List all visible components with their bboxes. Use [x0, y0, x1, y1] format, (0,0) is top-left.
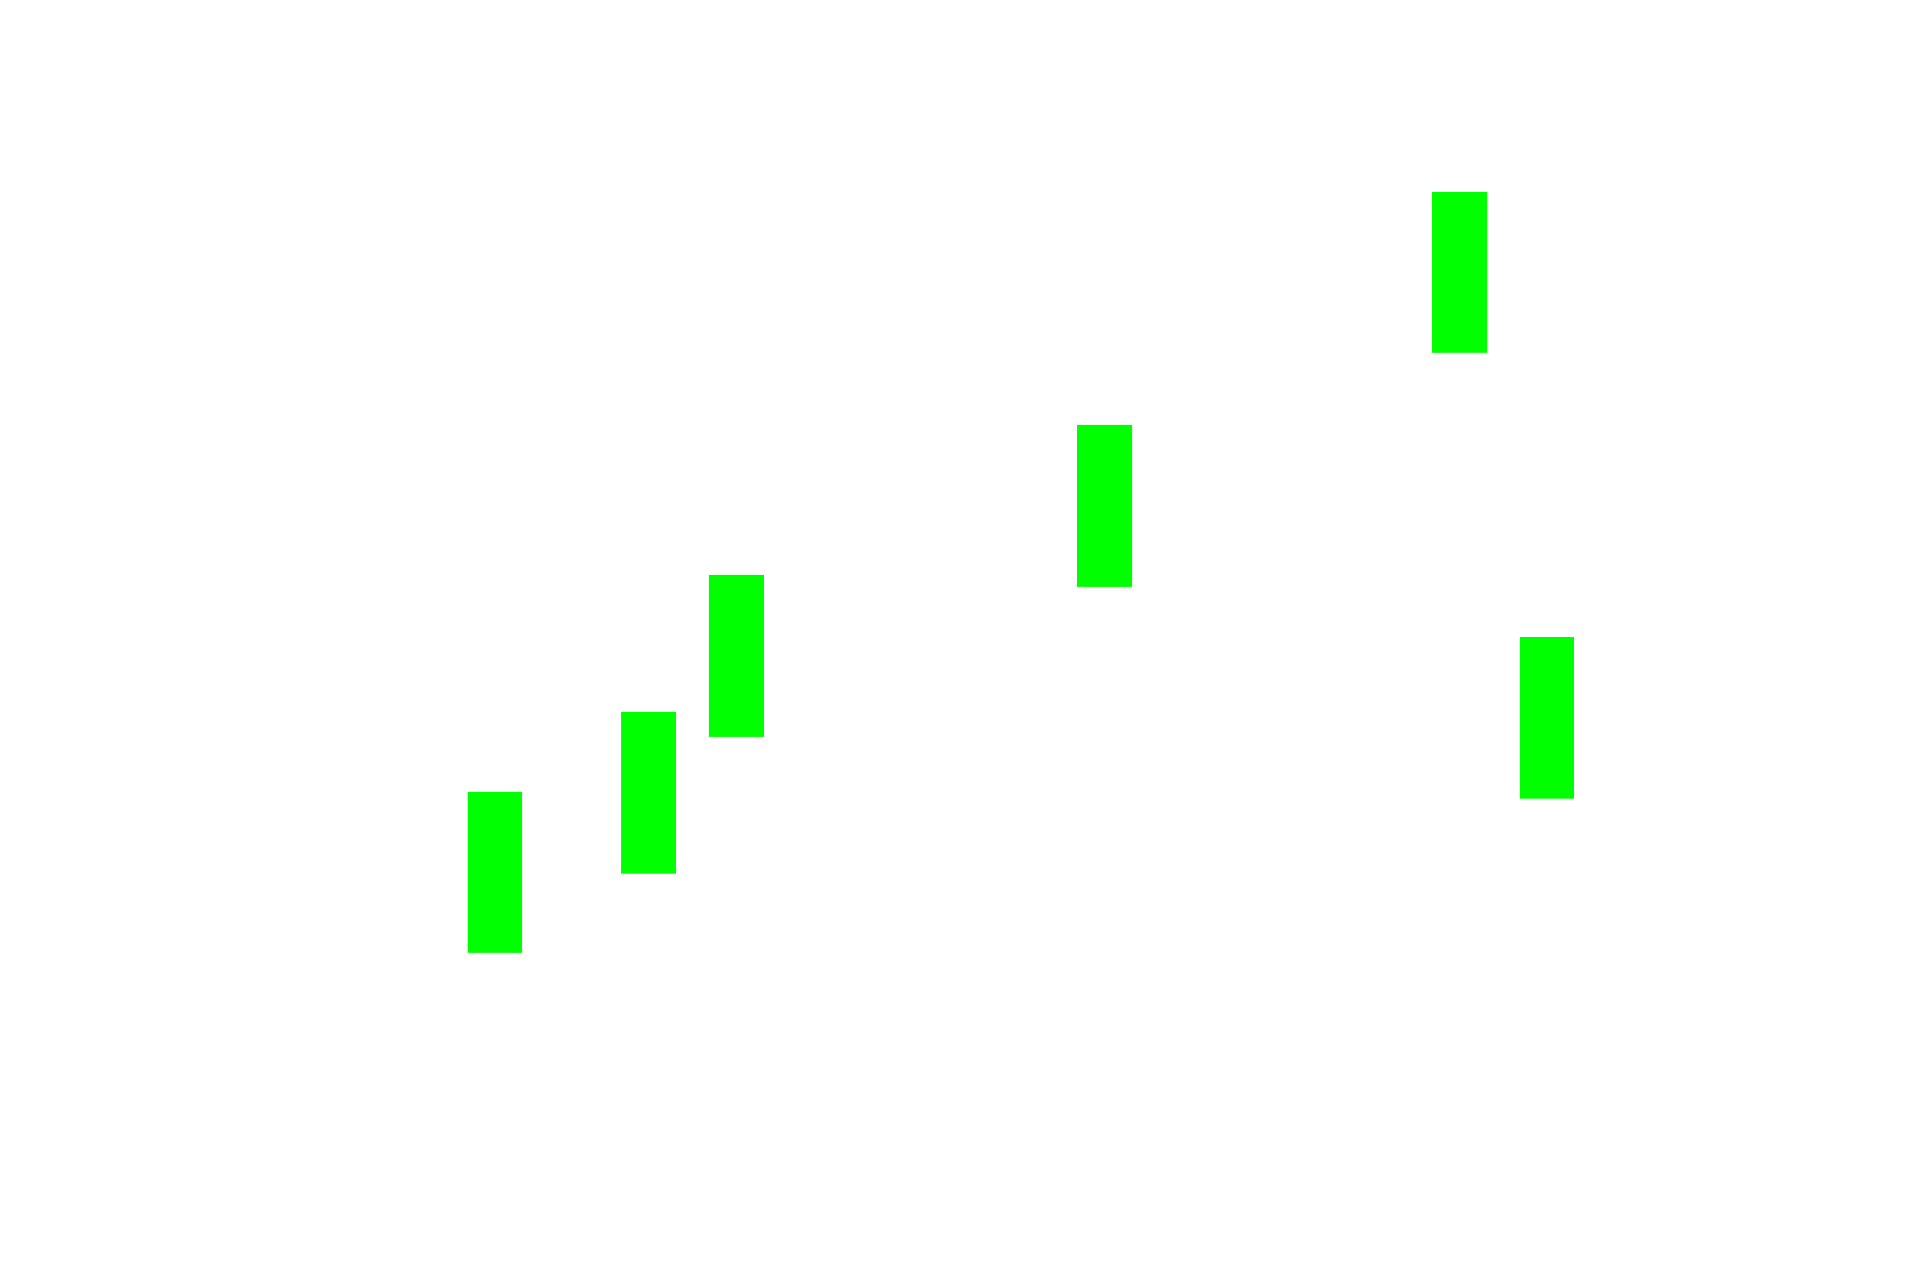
candle 3 [709, 575, 764, 737]
candle 2 [621, 712, 676, 874]
candle 1 [468, 792, 522, 953]
candle 6 [1520, 637, 1574, 799]
candle 5 [1432, 192, 1487, 353]
candle 4 [1077, 425, 1132, 587]
